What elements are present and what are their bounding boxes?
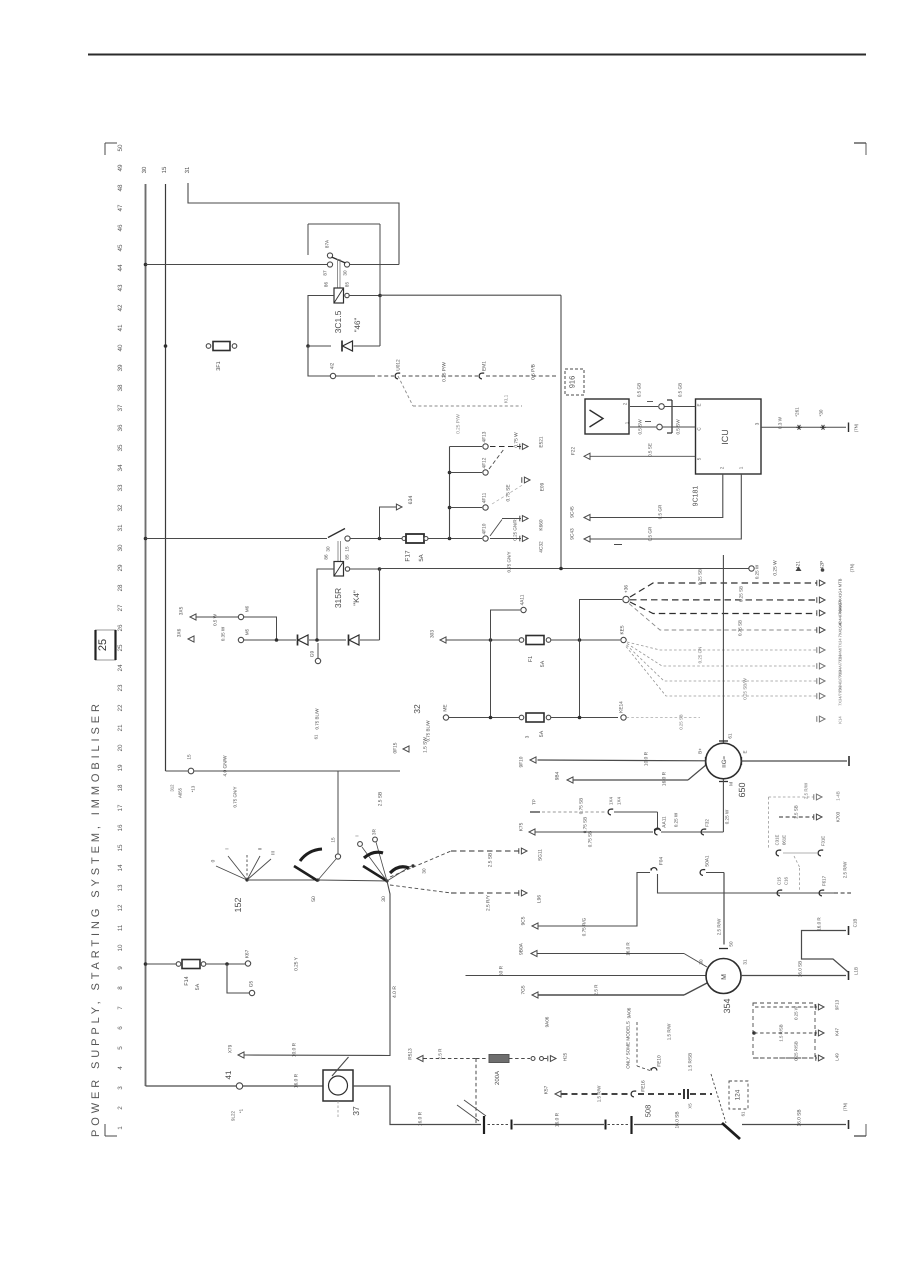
svg-text:124: 124	[734, 1089, 741, 1100]
wire coil86 down	[308, 296, 334, 347]
svg-text:50: 50	[117, 144, 124, 152]
connector AA11 bracket	[657, 812, 659, 828]
splice 261	[796, 426, 802, 428]
svg-text:2.5 R/W: 2.5 R/W	[843, 861, 848, 878]
svg-text:0.25 P/W: 0.25 P/W	[442, 362, 448, 382]
connector bracket	[671, 400, 673, 433]
svg-text:H25: H25	[563, 1052, 568, 1061]
svg-text:ME: ME	[443, 704, 449, 711]
svg-text:5A: 5A	[540, 660, 546, 667]
svg-text:7X34/7X34: 7X34/7X34	[837, 685, 842, 706]
svg-text:FE16: FE16	[641, 1080, 647, 1092]
svg-text:0: 0	[211, 859, 217, 862]
svg-text:12: 12	[117, 904, 124, 912]
svg-text:C15: C15	[777, 876, 782, 884]
svg-text:2.5 R: 2.5 R	[594, 984, 599, 996]
connector 1X4	[608, 809, 611, 815]
svg-text:5A: 5A	[418, 554, 425, 561]
svg-text:13: 13	[117, 884, 124, 892]
svg-text:0.25 W: 0.25 W	[794, 1005, 799, 1020]
svg-text:4: 4	[117, 1066, 124, 1070]
svg-text:9A06: 9A06	[545, 1016, 550, 1027]
svg-text:KE14: KE14	[619, 701, 625, 713]
svg-text:0.5 SE: 0.5 SE	[648, 443, 653, 457]
wire rail30 to terminal 41	[146, 1085, 237, 1087]
svg-text:L1B: L1B	[854, 967, 859, 975]
fuse F1 5A	[519, 638, 524, 643]
wire rail 30	[145, 184, 147, 1086]
terminal G9	[317, 643, 319, 658]
fuse F17 5A	[381, 538, 403, 540]
svg-text:0.3 W: 0.3 W	[778, 416, 783, 429]
svg-text:M5: M5	[245, 628, 250, 635]
frame corner mark top-left	[105, 142, 117, 144]
svg-text:0.25 SB: 0.25 SB	[698, 569, 703, 585]
svg-text:16: 16	[117, 824, 124, 832]
svg-text:4F12: 4F12	[482, 457, 488, 468]
master switch 124 blade	[722, 1123, 740, 1139]
terminal end of y568 bus	[749, 566, 754, 571]
terminal 4F12	[483, 470, 488, 475]
svg-text:U012: U012	[396, 359, 402, 371]
svg-text:16.0 R: 16.0 R	[662, 771, 668, 786]
svg-text:9C43: 9C43	[570, 528, 576, 540]
wire vertical x561 down	[560, 295, 562, 568]
svg-text:2.5 R/W: 2.5 R/W	[717, 918, 722, 935]
wire coil85 to bus	[349, 295, 380, 297]
relay K4 coil 315R	[334, 562, 344, 577]
wire long bus y568	[380, 568, 750, 570]
svg-text:312: 312	[170, 784, 175, 792]
svg-text:4F10: 4F10	[482, 523, 488, 534]
svg-text:4F13: 4F13	[482, 431, 488, 442]
svg-text:F14: F14	[184, 976, 190, 985]
wire dashed 4F13 to E521	[490, 446, 521, 448]
svg-text:EM1: EM1	[482, 361, 488, 371]
svg-text:9C181: 9C181	[692, 486, 699, 507]
svg-text:II: II	[258, 848, 264, 851]
svg-text:37: 37	[117, 404, 124, 412]
svg-text:46: 46	[117, 224, 124, 232]
svg-text:0.5 GR: 0.5 GR	[658, 504, 663, 519]
wire alternator D- down to AA11	[722, 779, 724, 832]
terminal 41	[236, 1083, 242, 1089]
control unit ICU box	[696, 399, 762, 474]
wire pole3 down 4.0R	[387, 881, 390, 1056]
svg-text:0.75 SB: 0.75 SB	[738, 620, 743, 636]
svg-text:3X6: 3X6	[177, 628, 183, 637]
svg-text:0.5 SW: 0.5 SW	[638, 419, 643, 435]
wire M6 elbow	[244, 617, 277, 640]
svg-text:0.5 GB: 0.5 GB	[678, 383, 683, 397]
wire dashed pole3 to L96	[390, 885, 451, 893]
fuse 3F1	[206, 344, 211, 349]
terminal M5	[238, 637, 243, 642]
svg-text:ICU: ICU	[720, 429, 730, 445]
terminal 4F11	[483, 505, 488, 510]
svg-text:9C5: 9C5	[521, 916, 527, 925]
switch pole1 rays	[216, 866, 247, 880]
svg-text:15: 15	[117, 844, 124, 852]
svg-text:G5: G5	[249, 980, 255, 987]
svg-text:28: 28	[117, 584, 124, 592]
junction rail30/relay46 feed	[144, 263, 148, 267]
dashed branch 9F13	[755, 1006, 817, 1008]
dashed fan from +36 line4	[629, 604, 817, 631]
svg-text:2.5 R/Y: 2.5 R/Y	[486, 894, 492, 911]
antenna unit 916 box	[585, 399, 629, 434]
battery 37 box	[323, 1070, 353, 1101]
svg-text:36: 36	[117, 424, 124, 432]
svg-text:0.75 BL/W: 0.75 BL/W	[426, 720, 431, 742]
svg-text:49: 49	[117, 164, 124, 172]
svg-text:0.5 W: 0.5 W	[213, 613, 218, 626]
svg-text:43: 43	[117, 284, 124, 292]
svg-text:44: 44	[117, 264, 124, 272]
svg-text:0.35 W: 0.35 W	[221, 626, 226, 641]
svg-text:C16: C16	[784, 876, 789, 884]
svg-text:FE10: FE10	[657, 1055, 663, 1067]
svg-text:26: 26	[117, 624, 124, 632]
terminal G5	[227, 964, 249, 993]
svg-text:I: I	[355, 835, 360, 836]
frame corner mark bottom-left	[105, 1135, 117, 1137]
svg-text:0.25 SB: 0.25 SB	[679, 714, 684, 729]
svg-text:E: E	[743, 750, 748, 753]
svg-text:2.5 R: 2.5 R	[438, 1048, 443, 1060]
svg-text:10.0 R: 10.0 R	[292, 1042, 298, 1057]
connector F32	[701, 829, 704, 835]
terminal 4F13	[483, 444, 488, 449]
svg-text:0.5 GR: 0.5 GR	[648, 526, 653, 541]
svg-text:1X4: 1X4	[617, 797, 622, 806]
wire 9B4 to alternator	[574, 779, 689, 781]
svg-text:0.25 SB: 0.25 SB	[739, 586, 744, 602]
wire 4F10 to 4C32	[490, 538, 521, 540]
branch arrow 634	[380, 507, 397, 539]
wire 50R to starter	[466, 975, 707, 977]
wire K4 contact to F17	[350, 538, 378, 540]
svg-text:1-4B: 1-4B	[836, 791, 841, 801]
svg-text:87A: 87A	[325, 239, 330, 248]
wire pole2 to pole3	[318, 880, 387, 881]
connector bars pair1	[483, 1116, 485, 1134]
pole2 arc	[300, 849, 322, 861]
svg-text:1X4: 1X4	[609, 797, 614, 806]
page header rule	[88, 54, 866, 56]
svg-text:0.25 W: 0.25 W	[674, 812, 679, 827]
cable to second connector	[514, 1124, 605, 1126]
group number box 25	[96, 630, 116, 660]
svg-text:*1: *1	[239, 1108, 244, 1113]
svg-text:33: 33	[117, 484, 124, 492]
terminal 4I2	[330, 373, 335, 378]
svg-text:30: 30	[699, 959, 704, 965]
svg-text:0.75 GN/Y: 0.75 GN/Y	[233, 786, 238, 807]
alternator pin M bottom	[719, 781, 728, 783]
dashdot down link	[794, 856, 800, 868]
K4 contact blade	[328, 529, 345, 538]
svg-text:1: 1	[117, 1126, 124, 1130]
svg-text:3R: 3R	[372, 828, 377, 835]
svg-text:50 R: 50 R	[499, 965, 505, 976]
svg-text:152: 152	[233, 897, 243, 912]
svg-text:(7N): (7N)	[854, 423, 859, 432]
svg-text:634: 634	[408, 496, 414, 505]
svg-text:50: 50	[729, 941, 734, 947]
svg-text:X79: X79	[228, 1044, 234, 1053]
svg-text:2: 2	[720, 466, 725, 469]
svg-text:B+: B+	[698, 748, 703, 754]
svg-text:50A1: 50A1	[705, 855, 711, 867]
starter 354 circle	[706, 959, 741, 994]
svg-text:*13: *13	[191, 785, 196, 792]
relay 46 contact 87	[327, 262, 332, 267]
dashdot riser	[768, 797, 770, 849]
wire bracket to ICU pin E	[665, 406, 696, 408]
svg-text:*30: *30	[819, 409, 824, 416]
svg-text:A055: A055	[178, 787, 183, 798]
svg-text:6: 6	[117, 1026, 124, 1030]
battery negative cable	[353, 1086, 481, 1125]
terminal 4A11 branch	[491, 610, 521, 640]
svg-text:0.25 GN: 0.25 GN	[698, 647, 703, 664]
svg-text:61: 61	[741, 1111, 746, 1116]
wire pole1 to pole2	[247, 879, 318, 881]
svg-text:3F1: 3F1	[216, 361, 222, 370]
svg-text:*261: *261	[795, 407, 800, 417]
916 dashed label box	[565, 369, 584, 395]
earth triangle 3X6	[188, 636, 194, 642]
svg-text:3: 3	[755, 422, 760, 425]
svg-text:41: 41	[224, 1070, 233, 1079]
svg-text:F617: F617	[822, 875, 827, 886]
wire 9F10 to alternator B+	[538, 759, 707, 762]
svg-text:20: 20	[117, 744, 124, 752]
svg-text:4F11: 4F11	[482, 492, 488, 503]
svg-text:22: 22	[117, 704, 124, 712]
svg-text:0.25 W: 0.25 W	[773, 560, 779, 576]
junction rail30 F14	[144, 962, 148, 966]
wire 9C5 up to F04	[539, 873, 651, 927]
heavy dashed K57 to FE16	[562, 1093, 631, 1095]
battery cable branch up	[802, 931, 849, 973]
svg-text:29: 29	[117, 564, 124, 572]
wire rail30 to K4 contact	[146, 538, 328, 540]
svg-text:0.25 Y: 0.25 Y	[294, 956, 300, 971]
svg-text:85: 85	[345, 282, 350, 288]
svg-text:5: 5	[117, 1046, 124, 1050]
svg-text:2: 2	[623, 402, 628, 405]
dashed option box	[753, 1003, 815, 1058]
svg-text:C1B: C1B	[853, 919, 858, 928]
svg-text:16.0 R: 16.0 R	[294, 1073, 300, 1088]
dashed to K703	[779, 816, 814, 818]
svg-text:45: 45	[117, 244, 124, 252]
svg-text:C31E: C31E	[775, 834, 780, 845]
connector bars on K57 line	[683, 1089, 685, 1099]
svg-text:18: 18	[117, 784, 124, 792]
relay 46 contact 87A	[327, 253, 332, 258]
terminal KE5	[582, 639, 620, 641]
fuse F2 5A	[519, 715, 524, 720]
svg-text:0.25 P/W: 0.25 P/W	[456, 414, 462, 434]
svg-text:9L22: 9L22	[231, 1110, 236, 1121]
relay 46 coil	[334, 288, 344, 303]
svg-text:4D44/7X41G4: 4D44/7X41G4	[837, 600, 842, 626]
svg-text:47: 47	[117, 204, 124, 212]
svg-text:≡G≈: ≡G≈	[721, 755, 728, 767]
svg-text:9F10: 9F10	[519, 756, 525, 767]
distribution bus vertical	[449, 447, 451, 539]
svg-text:15: 15	[331, 837, 336, 843]
svg-text:1: 1	[739, 466, 744, 469]
svg-text:30: 30	[326, 546, 331, 552]
svg-text:86: 86	[324, 554, 329, 560]
connector C15/C16 hooks	[777, 890, 780, 896]
splice 30	[820, 426, 826, 428]
dashdot fan KE5 line3	[627, 645, 818, 681]
svg-text:4C32: 4C32	[539, 541, 545, 553]
svg-text:2.5 SB: 2.5 SB	[488, 853, 494, 867]
svg-text:0.75 SB: 0.75 SB	[579, 798, 584, 814]
stub TP dashed to 1X4	[530, 811, 540, 813]
dashed branch L49	[755, 1057, 817, 1059]
alternator 650 circle	[706, 743, 742, 779]
svg-text:KE5: KE5	[620, 625, 626, 634]
svg-text:16.0 R: 16.0 R	[418, 1111, 424, 1126]
svg-text:9A06: 9A06	[627, 1007, 632, 1018]
svg-text:9C45: 9C45	[570, 506, 576, 518]
wire 9B0A to starter	[538, 953, 685, 955]
svg-text:F32: F32	[705, 819, 710, 827]
svg-text:0.25 GN/R: 0.25 GN/R	[513, 519, 518, 541]
svg-text:K14: K14	[837, 716, 842, 724]
svg-text:MTB: MTB	[837, 578, 842, 587]
svg-text:0.25 W: 0.25 W	[725, 809, 730, 824]
svg-text:50: 50	[311, 896, 317, 902]
pole2 contact 15 circle	[335, 854, 340, 859]
wire F17 to distribution bus	[428, 538, 482, 540]
wire rail 15	[165, 184, 167, 771]
svg-text:5: 5	[697, 457, 702, 460]
svg-text:30: 30	[422, 868, 427, 874]
svg-text:M: M	[721, 974, 728, 980]
svg-text:(7N): (7N)	[843, 1102, 848, 1111]
svg-text:34: 34	[117, 464, 124, 472]
svg-text:32: 32	[412, 704, 422, 714]
dashed branch K47	[754, 1032, 817, 1034]
wire dashed pole3 to SG11	[390, 851, 451, 877]
wire dashed branch to lower net	[398, 376, 413, 406]
cable master switch to end	[742, 1124, 846, 1126]
fuse 200A	[476, 1058, 488, 1060]
svg-text:G9: G9	[310, 650, 316, 657]
wire 50A1 down to starter pin50	[723, 873, 725, 945]
svg-text:916: 916	[568, 376, 577, 389]
junction rail30 K4 feed	[144, 537, 148, 541]
svg-text:"K4": "K4"	[352, 590, 361, 606]
svg-text:3: 3	[525, 735, 530, 738]
svg-text:32: 32	[117, 504, 124, 512]
connector bars pair2	[605, 1120, 607, 1130]
svg-text:27: 27	[117, 604, 124, 612]
alternator pin E / output	[741, 757, 743, 765]
arrow E09	[492, 484, 524, 504]
wire D3 up to coil85	[379, 569, 381, 640]
svg-text:17: 17	[117, 804, 124, 812]
svg-text:III: III	[271, 851, 277, 855]
switch pole3 blade	[363, 866, 387, 881]
svg-text:31: 31	[117, 524, 124, 532]
wire 41 to battery	[243, 1085, 323, 1087]
svg-text:23: 23	[117, 684, 124, 692]
K4 coil pin85 circle	[345, 567, 349, 571]
svg-text:85: 85	[345, 554, 350, 560]
svg-text:4.0 R: 4.0 R	[392, 986, 398, 998]
wire tap 4F11	[450, 507, 483, 509]
svg-text:15: 15	[187, 754, 192, 760]
svg-text:0.75 W: 0.75 W	[514, 432, 520, 448]
svg-text:1.5 R/W: 1.5 R/W	[597, 1085, 602, 1102]
diode D2	[297, 635, 299, 646]
pole3 contacts	[358, 842, 363, 847]
terminal +36	[623, 596, 629, 602]
wire tap 4F13	[450, 446, 483, 448]
antenna chevron	[590, 410, 604, 427]
svg-text:+36: +36	[624, 585, 630, 593]
svg-text:0.25 W: 0.25 W	[755, 564, 760, 579]
svg-text:354: 354	[722, 998, 732, 1013]
svg-text:30: 30	[343, 270, 348, 276]
fuse F14 5A	[146, 963, 177, 965]
svg-text:0.5 P/B: 0.5 P/B	[531, 364, 537, 380]
svg-text:35: 35	[117, 444, 124, 452]
wire relay46 contact 87 feed	[146, 264, 328, 266]
relay 46 actuator link	[337, 259, 339, 288]
svg-text:9B0A: 9B0A	[519, 942, 525, 955]
wire 15-drop to pole2	[337, 771, 339, 854]
svg-text:7X41G4: 7X41G4	[837, 622, 842, 637]
svg-text:2.5 SB: 2.5 SB	[794, 805, 799, 819]
svg-text:C: C	[697, 427, 702, 431]
svg-text:38: 38	[117, 384, 124, 392]
svg-text:30: 30	[141, 166, 148, 173]
svg-text:ONLY SOME MODELS: ONLY SOME MODELS	[626, 1021, 631, 1069]
svg-text:2.5 R/W: 2.5 R/W	[804, 782, 809, 799]
svg-text:31: 31	[743, 959, 748, 965]
svg-text:E09: E09	[540, 482, 546, 491]
wire 4I2 dashed to U012	[336, 375, 371, 377]
svg-text:10.0 R: 10.0 R	[644, 751, 650, 766]
svg-text:3: 3	[117, 1086, 124, 1090]
svg-text:K75: K75	[519, 822, 525, 831]
svg-text:1.5 R/W: 1.5 R/W	[667, 1023, 672, 1040]
svg-text:POWER SUPPLY, STARTING SYSTEM,: POWER SUPPLY, STARTING SYSTEM, IMMOBILIS…	[90, 700, 102, 1137]
svg-text:16.0 R: 16.0 R	[555, 1112, 561, 1127]
wire bracket to ICU pin C	[663, 426, 696, 428]
svg-text:7G5: 7G5	[521, 985, 527, 994]
svg-text:F1: F1	[528, 656, 534, 662]
svg-text:4A11: 4A11	[520, 594, 526, 605]
svg-text:15: 15	[345, 546, 350, 552]
svg-text:315R: 315R	[333, 588, 343, 608]
svg-text:15: 15	[161, 166, 168, 173]
relay 46 coil pin 85 circle	[345, 293, 349, 297]
svg-text:86: 86	[324, 282, 329, 288]
svg-text:K57: K57	[544, 1085, 550, 1094]
wire 4F10 branch to K660	[490, 520, 502, 537]
